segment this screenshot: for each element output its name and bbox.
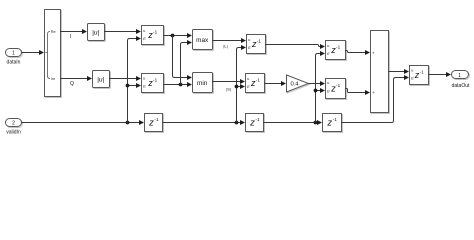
svg-text:I: I xyxy=(70,34,71,40)
svg-text:|S|: |S| xyxy=(226,87,231,92)
svg-text:dataOut: dataOut xyxy=(452,83,470,89)
svg-text:E: E xyxy=(248,45,251,50)
svg-text:E: E xyxy=(143,84,146,89)
wire Z1 to Z2 xyxy=(163,120,246,125)
svg-text:-1: -1 xyxy=(333,117,338,123)
junction node on D2 output xyxy=(179,83,183,87)
svg-text:Re: Re xyxy=(51,30,56,34)
svg-text:max: max xyxy=(196,37,209,44)
delay block B (Q path stage 3, enabled) xyxy=(326,79,347,100)
wire A out to sum in1 (jog) xyxy=(346,50,371,55)
wire min out to delay F u xyxy=(213,79,246,84)
svg-text:E: E xyxy=(327,89,330,94)
svg-text:u: u xyxy=(247,76,249,81)
gain block 0.4 xyxy=(287,75,310,93)
input port 2 validIn xyxy=(6,119,23,136)
delay block A (I path stage 3, enabled) xyxy=(326,41,347,61)
wire E out to delay A u (jog) xyxy=(266,44,326,49)
wire Q: complex block Im to abs2 xyxy=(60,76,92,81)
svg-text:min: min xyxy=(197,80,208,87)
junction node riser2 at F E xyxy=(235,85,239,89)
delay block D (output, enabled) xyxy=(410,66,430,86)
sum block (rectangular add) xyxy=(371,31,390,114)
delay block D1 (I path, enabled) xyxy=(142,26,165,46)
svg-text:Q: Q xyxy=(70,81,74,87)
abs block |u| (Q path) xyxy=(93,71,111,89)
svg-text:z: z xyxy=(148,118,154,129)
svg-text:0.4: 0.4 xyxy=(290,82,299,88)
svg-text:Im: Im xyxy=(51,77,55,81)
svg-text:-1: -1 xyxy=(255,117,260,123)
complex to real-imag block U1 xyxy=(45,10,62,98)
wire D1 out to max in1 xyxy=(164,33,193,38)
svg-text:E: E xyxy=(411,76,414,81)
unit delay block Z1 (valid pipeline) xyxy=(145,114,164,133)
junction node validIn tap 2 xyxy=(235,121,239,125)
wire riser tap3 to A E and B E xyxy=(316,51,326,123)
delay block E (after max, enabled) xyxy=(247,35,267,55)
svg-text:z: z xyxy=(249,118,255,129)
wire D2 out to min in2 xyxy=(164,82,193,87)
svg-text:|L|: |L| xyxy=(223,44,227,49)
svg-text:-1: -1 xyxy=(154,117,159,123)
wire gain out to delay B u xyxy=(309,81,326,86)
svg-text:-1: -1 xyxy=(153,30,158,35)
svg-text:|u|: |u| xyxy=(92,29,99,36)
min block xyxy=(193,73,214,94)
svg-text:E: E xyxy=(143,36,146,41)
unit delay block Z3 (valid pipeline) xyxy=(323,114,343,133)
svg-text:u: u xyxy=(411,68,413,73)
svg-text:u: u xyxy=(327,43,329,48)
junction node validIn tap 3 xyxy=(314,121,318,125)
wire Z2 to Z3 xyxy=(264,120,323,125)
wire Z3 to D E riser xyxy=(342,75,410,123)
svg-text:dataIn: dataIn xyxy=(7,60,21,66)
wire branch D1 out down to min in1 xyxy=(173,36,193,81)
wire branch D2 out up to max in2 xyxy=(181,40,193,85)
max block xyxy=(193,30,214,51)
svg-text:|u|: |u| xyxy=(97,76,104,83)
svg-text:-1: -1 xyxy=(256,78,261,83)
svg-text:-1: -1 xyxy=(153,78,158,83)
abs block |u| (I path) xyxy=(88,24,106,42)
svg-text:u: u xyxy=(143,28,145,33)
svg-text:-1: -1 xyxy=(420,69,425,74)
delay block D2 (Q path, enabled) xyxy=(142,74,165,94)
wire riser validIn to D1 E and D2 E xyxy=(128,36,142,123)
wire dataIn to complex block xyxy=(22,50,45,55)
svg-text:u: u xyxy=(327,80,329,85)
wire F out to gain xyxy=(265,81,287,86)
svg-text:1: 1 xyxy=(12,51,15,57)
junction node on D1 output xyxy=(171,34,175,38)
wire abs2 to delay D2 u xyxy=(109,76,141,81)
svg-text:-1: -1 xyxy=(336,45,341,50)
svg-text:2: 2 xyxy=(12,121,15,127)
wire max out to delay E u xyxy=(213,38,247,43)
wire validIn to Z1 xyxy=(22,120,145,125)
svg-text:-1: -1 xyxy=(257,39,262,44)
wire sum out to delay D u xyxy=(389,69,410,74)
wire I: complex block Re to abs1 xyxy=(60,29,87,34)
wire riser tap2 to E E and F E xyxy=(237,45,247,123)
svg-text:1: 1 xyxy=(458,73,461,79)
delay block F (after min, enabled) xyxy=(246,74,266,94)
svg-text:+: + xyxy=(372,50,375,55)
svg-text:u: u xyxy=(143,76,145,81)
wire B out to sum in2 (jog) xyxy=(346,89,371,96)
svg-text:-1: -1 xyxy=(336,83,341,88)
wire abs1 to delay D1 u xyxy=(104,29,141,34)
junction node riser1 at D2 E xyxy=(126,84,130,88)
wire D out to dataOut xyxy=(429,72,452,77)
svg-text:+: + xyxy=(372,90,375,95)
junction node riser3 at B E xyxy=(314,89,318,93)
output port 1 dataOut xyxy=(452,71,471,90)
svg-text:z: z xyxy=(326,118,332,129)
input port 1 dataIn xyxy=(6,49,23,66)
svg-text:u: u xyxy=(248,37,250,42)
junction node validIn tap 1 xyxy=(126,121,130,125)
svg-text:E: E xyxy=(247,84,250,89)
svg-text:E: E xyxy=(327,51,330,56)
svg-text:validIn: validIn xyxy=(6,130,21,136)
unit delay block Z2 (valid pipeline) xyxy=(246,114,265,133)
